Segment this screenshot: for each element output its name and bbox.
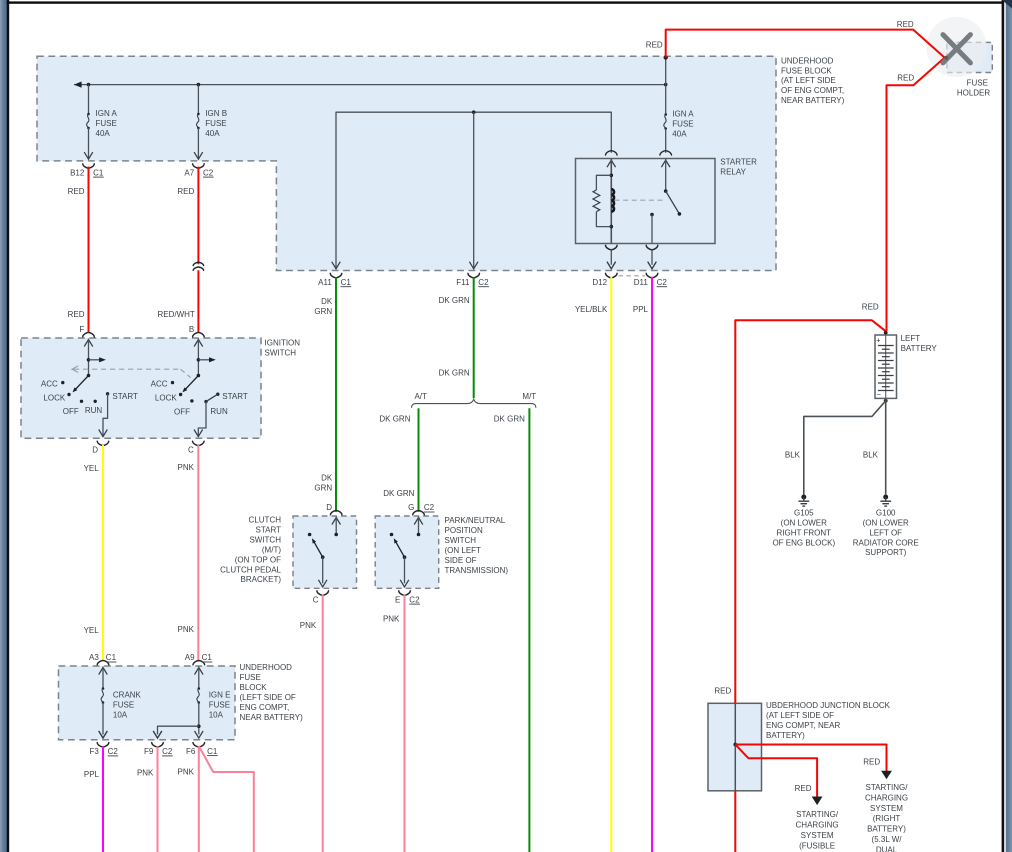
fuse holder connection dot (944, 56, 948, 60)
svg-text:RED: RED (714, 687, 731, 696)
ignition switch box (dashed) (21, 338, 261, 438)
underhood fuse block (top, dashed box) (37, 56, 776, 270)
svg-text:ACC: ACC (151, 380, 168, 389)
svg-text:RED/WHT: RED/WHT (157, 310, 194, 319)
A/T-M/T split brace (412, 399, 536, 407)
svg-text:FUSE: FUSE (209, 700, 230, 709)
svg-text:CRANK: CRANK (113, 691, 142, 700)
exit D12 (607, 262, 616, 269)
svg-text:SWITCH: SWITCH (249, 535, 281, 544)
svg-text:DK GRN: DK GRN (383, 489, 414, 498)
wire DK GRN A/T branch to G (418, 408, 420, 512)
wire PNK F9 down (157, 746, 159, 852)
svg-text:C: C (188, 445, 194, 454)
svg-text:D12: D12 (592, 278, 607, 287)
svg-text:ENG COMPT, NEAR: ENG COMPT, NEAR (766, 721, 840, 730)
wire DK GRN F11 to split (473, 277, 475, 398)
svg-text:RUN: RUN (210, 407, 228, 416)
wire RED junction block to bottom (734, 791, 736, 852)
svg-text:IGN A: IGN A (96, 109, 118, 118)
svg-text:ENG COMPT,: ENG COMPT, (240, 703, 290, 712)
node coil bottom (610, 225, 614, 229)
ground G105 (801, 495, 806, 500)
svg-text:RED: RED (863, 758, 880, 767)
svg-text:FUSE: FUSE (96, 119, 117, 128)
mechanical gang link (dashed) (72, 366, 78, 373)
svg-text:RED: RED (646, 41, 663, 50)
exit F3 C2 (99, 731, 108, 738)
svg-text:−: − (877, 392, 881, 399)
svg-text:D11: D11 (634, 278, 649, 287)
wire PNK E down (404, 595, 406, 852)
svg-text:LEFT OF: LEFT OF (869, 528, 902, 537)
svg-text:BLK: BLK (863, 451, 879, 460)
svg-text:PNK: PNK (300, 621, 317, 630)
svg-text:SWITCH: SWITCH (445, 536, 477, 545)
svg-text:FUSE: FUSE (113, 700, 134, 709)
left START wire to D (103, 394, 108, 437)
svg-text:PNK: PNK (178, 625, 195, 634)
node bus-IGN B (197, 83, 201, 87)
svg-text:(ON LOWER: (ON LOWER (781, 518, 827, 527)
svg-text:G105: G105 (794, 508, 814, 517)
P/N switch output wire (404, 557, 406, 583)
fuse CRANK 10A (102, 667, 104, 689)
svg-text:START: START (256, 525, 282, 534)
svg-text:(AT LEFT SIDE: (AT LEFT SIDE (781, 76, 836, 85)
svg-text:C2: C2 (108, 747, 119, 756)
svg-text:BATTERY): BATTERY) (867, 825, 906, 834)
wire YEL/BLK D12 down (610, 277, 612, 852)
svg-text:TRANSMISSION): TRANSMISSION) (445, 566, 509, 575)
svg-text:NEAR BATTERY): NEAR BATTERY) (781, 96, 845, 105)
svg-text:PARK/NEUTRAL: PARK/NEUTRAL (445, 516, 506, 525)
wire PPL F3 down (102, 746, 104, 852)
svg-text:DK GRN: DK GRN (379, 415, 410, 424)
svg-text:DK: DK (321, 474, 333, 483)
wire BLK battery negative split (884, 399, 888, 403)
svg-text:DK GRN: DK GRN (494, 415, 525, 424)
exit E C2 (park/neutral) (399, 591, 411, 595)
svg-text:RED: RED (177, 187, 194, 196)
clutch start switch box (dashed) (293, 516, 357, 588)
svg-text:YEL/BLK: YEL/BLK (575, 305, 608, 314)
starter relay box (576, 159, 716, 244)
relay switch fixed contact (650, 213, 654, 217)
svg-text:PNK: PNK (137, 768, 154, 777)
svg-text:(M/T): (M/T) (262, 545, 281, 554)
node bus-IGN A (87, 83, 91, 87)
svg-text:OF ENG COMPT,: OF ENG COMPT, (781, 86, 844, 95)
bus left arrow (74, 82, 82, 88)
svg-text:C1: C1 (207, 747, 218, 756)
battery LEFT BATTERY (875, 335, 897, 398)
svg-text:START: START (112, 392, 138, 401)
svg-text:RED: RED (897, 73, 914, 82)
svg-text:40A: 40A (672, 129, 687, 138)
svg-text:RED: RED (68, 310, 85, 319)
underhood junction block box (708, 703, 762, 791)
svg-text:FUSE BLOCK: FUSE BLOCK (781, 66, 832, 75)
svg-text:F9: F9 (144, 747, 154, 756)
svg-text:(AT LEFT SIDE OF: (AT LEFT SIDE OF (766, 711, 834, 720)
underhood fuse block box (lower left, dashed) (59, 666, 236, 740)
wire PNK F6 branch (jog right) (199, 746, 254, 852)
fuse IGN B 40A (197, 85, 199, 114)
svg-text:PPL: PPL (633, 305, 649, 314)
entry A3 C1 (97, 660, 109, 664)
svg-text:10A: 10A (209, 710, 224, 719)
svg-text:DK GRN: DK GRN (439, 296, 470, 305)
svg-text:C2: C2 (162, 747, 173, 756)
exit D (97, 441, 109, 445)
exit F11 C2 (469, 262, 478, 269)
svg-text:LOCK: LOCK (43, 393, 65, 402)
ignition pole wire at x=198.4 (197, 339, 199, 376)
ignition rotor arm (74, 376, 88, 391)
svg-text:YEL: YEL (84, 626, 100, 635)
clutch open contact (308, 533, 312, 537)
wire through junction block (gray) (734, 703, 736, 791)
relay coil feed connector (606, 151, 618, 155)
svg-text:RED: RED (897, 20, 914, 29)
relay resistor R (parallel) (596, 175, 611, 190)
svg-text:HOLDER: HOLDER (957, 89, 991, 98)
svg-text:+: + (876, 337, 880, 344)
fuse IGN A 40A (right) (665, 85, 667, 115)
relay output D11 connector at box bottom (646, 245, 658, 249)
entry G C2 (park/neutral switch) (413, 510, 425, 514)
svg-text:RED: RED (795, 784, 812, 793)
svg-text:E: E (395, 595, 400, 604)
clutch switch arm (313, 541, 322, 558)
position contacts (61, 381, 64, 384)
svg-text:(FUSIBLE: (FUSIBLE (799, 841, 835, 850)
svg-text:C2: C2 (657, 278, 668, 287)
relay coil wire (610, 159, 612, 244)
svg-text:BATTERY: BATTERY (901, 344, 938, 353)
svg-text:SWITCH: SWITCH (265, 348, 297, 357)
svg-text:FUSE: FUSE (240, 673, 261, 682)
svg-text:10A: 10A (113, 710, 128, 719)
svg-text:PNK: PNK (178, 768, 195, 777)
relay switch contacts (665, 159, 667, 192)
wire branch to F9 (158, 726, 199, 734)
svg-text:STARTER: STARTER (720, 158, 757, 167)
svg-text:UNDERHOOD: UNDERHOOD (781, 56, 834, 65)
wire RED fuse block to fuse holder (666, 30, 945, 58)
wire DK GRN M/T branch down (528, 408, 530, 852)
svg-text:C: C (313, 595, 319, 604)
wire PNK clutch C down (322, 595, 324, 852)
svg-text:C1: C1 (106, 653, 117, 662)
svg-text:RELAY: RELAY (720, 168, 746, 177)
svg-text:C2: C2 (203, 168, 214, 177)
fuse IGN A 40A (left) (88, 85, 90, 114)
junction node (733, 743, 737, 747)
connector C2 dashed link (619, 275, 646, 277)
ignition pole wire at x=88.5 (88, 339, 90, 376)
svg-text:SYSTEM: SYSTEM (801, 831, 834, 840)
svg-text:F11: F11 (456, 278, 470, 287)
P/N open contact (390, 533, 394, 537)
svg-text:D: D (92, 445, 98, 454)
ignition rotor arm (184, 376, 198, 391)
svg-text:40A: 40A (96, 129, 111, 138)
svg-text:F3: F3 (89, 747, 99, 756)
exit A7 C2 (194, 152, 203, 159)
svg-text:F: F (79, 325, 84, 334)
svg-text:C1: C1 (202, 653, 213, 662)
fuse holder box (dashed) (947, 42, 992, 72)
svg-text:A11: A11 (318, 278, 332, 287)
exit C (clutch) (317, 591, 329, 595)
svg-text:STARTING/: STARTING/ (866, 783, 909, 792)
svg-text:GRN: GRN (314, 307, 332, 316)
park/neutral position switch box (dashed) (375, 516, 439, 588)
svg-text:C2: C2 (478, 278, 489, 287)
entry B (193, 332, 205, 336)
cursor highlight circle (926, 17, 986, 77)
exit F6 C1 (193, 743, 205, 747)
ground G100 (883, 495, 888, 500)
svg-text:40A: 40A (205, 129, 220, 138)
wire PNK C to A9 (197, 445, 199, 662)
svg-text:ACC: ACC (41, 380, 58, 389)
svg-text:PNK: PNK (178, 463, 195, 472)
svg-text:BLOCK: BLOCK (240, 683, 268, 692)
svg-text:BLK: BLK (785, 451, 801, 460)
svg-text:DK GRN: DK GRN (439, 369, 470, 378)
wire RED branch to fusible link (735, 745, 817, 798)
svg-text:IGNITION: IGNITION (265, 338, 301, 347)
node coil top (610, 174, 614, 178)
entry F (83, 332, 95, 336)
relay mechanical link (dashed) (615, 199, 665, 201)
relay switch feed connector (660, 151, 672, 155)
relay output D12 connector at box bottom (606, 245, 618, 249)
svg-text:YEL: YEL (84, 464, 100, 473)
svg-text:A3: A3 (89, 653, 99, 662)
wire RED/WHT A7 to B (197, 167, 199, 265)
exit A11 C1 (332, 262, 341, 269)
wire RED B12 to F (88, 167, 90, 333)
P/N switch arm (395, 541, 404, 558)
svg-text:C1: C1 (93, 168, 104, 177)
svg-text:PNK: PNK (383, 615, 400, 624)
svg-text:A7: A7 (184, 168, 194, 177)
svg-text:F6: F6 (186, 747, 196, 756)
svg-text:RED: RED (862, 302, 879, 311)
svg-text:(LEFT SIDE OF: (LEFT SIDE OF (240, 693, 296, 702)
svg-text:START: START (222, 392, 248, 401)
exit D11 C2 (648, 262, 657, 269)
battery terminal dot (884, 331, 888, 335)
svg-text:SUPPORT): SUPPORT) (865, 548, 907, 557)
entry A9 C1 (193, 660, 205, 664)
svg-text:B12: B12 (70, 168, 85, 177)
svg-text:M/T: M/T (522, 392, 536, 401)
svg-text:RADIATOR CORE: RADIATOR CORE (853, 538, 919, 547)
svg-text:LEFT: LEFT (901, 334, 921, 343)
svg-text:C1: C1 (341, 278, 352, 287)
svg-text:B: B (189, 325, 194, 334)
entry D (clutch switch) (330, 510, 342, 514)
svg-text:D: D (326, 503, 332, 512)
node RED drop on box edge (664, 55, 668, 59)
svg-text:FUSE: FUSE (967, 79, 988, 88)
svg-text:A9: A9 (185, 653, 195, 662)
svg-text:IGN B: IGN B (205, 109, 227, 118)
svg-text:RIGHT FRONT: RIGHT FRONT (777, 528, 832, 537)
svg-text:RUN: RUN (85, 406, 103, 415)
svg-text:G100: G100 (876, 508, 896, 517)
svg-text:POSITION: POSITION (445, 526, 483, 535)
svg-text:BRACKET): BRACKET) (241, 575, 282, 584)
wire RED branch to right battery system (735, 745, 886, 772)
svg-text:DUAL: DUAL (876, 845, 898, 852)
clutch switch output wire (322, 557, 324, 583)
svg-text:SYSTEM: SYSTEM (870, 804, 903, 813)
svg-text:G: G (408, 503, 414, 512)
svg-text:PPL: PPL (84, 770, 100, 779)
svg-text:(ON LOWER: (ON LOWER (863, 518, 909, 527)
fuse IGN E 10A (198, 667, 200, 689)
svg-text:(5.3L W/: (5.3L W/ (872, 835, 903, 844)
wire RED battery to junction block (horizontal) (735, 320, 885, 703)
svg-text:UBDERHOOD JUNCTION BLOCK: UBDERHOOD JUNCTION BLOCK (766, 701, 891, 710)
svg-text:FUSE: FUSE (205, 119, 226, 128)
svg-text:IGN A: IGN A (672, 110, 694, 119)
svg-text:OF ENG BLOCK): OF ENG BLOCK) (772, 538, 835, 547)
inline connector on A7 wire (193, 262, 203, 265)
cursor X icon (943, 35, 970, 63)
svg-text:CHARGING: CHARGING (865, 793, 908, 802)
wire DK GRN A11 to clutch switch D (335, 277, 337, 512)
svg-text:CLUTCH: CLUTCH (249, 516, 282, 525)
wire PNK F6 down (198, 746, 200, 852)
svg-text:UNDERHOOD: UNDERHOOD (240, 663, 293, 672)
wire PPL D11 down (651, 277, 653, 852)
node bus-right (664, 83, 668, 87)
svg-text:SIDE OF: SIDE OF (445, 556, 477, 565)
branch wire to A11/F11/relay coil (336, 112, 611, 269)
right START-RUN wire to C (206, 394, 218, 401)
svg-text:RED: RED (68, 187, 85, 196)
svg-text:CHARGING: CHARGING (796, 821, 839, 830)
svg-text:IGN E: IGN E (209, 691, 231, 700)
node branch-F11 (472, 110, 476, 114)
svg-text:BATTERY): BATTERY) (766, 731, 805, 740)
bus wire in top fuse block (74, 84, 666, 86)
svg-text:C2: C2 (424, 503, 435, 512)
exit F9 C2 (153, 731, 162, 738)
wire RED to fuse holder (vertical drop) (665, 57, 667, 84)
svg-text:DK: DK (321, 297, 333, 306)
wire RED fuse holder to battery (887, 58, 945, 332)
svg-text:(RIGHT: (RIGHT (873, 814, 901, 823)
position contacts (171, 381, 174, 384)
wire YEL D to A3 (102, 445, 104, 662)
svg-text:(ON TOP OF: (ON TOP OF (235, 555, 281, 564)
node F9 branch (197, 724, 201, 728)
svg-text:GRN: GRN (314, 483, 332, 492)
svg-text:OFF: OFF (174, 408, 190, 417)
relay coil windings (611, 189, 614, 211)
exit B12 C1 (84, 152, 93, 159)
svg-text:CLUTCH PEDAL: CLUTCH PEDAL (220, 565, 281, 574)
svg-text:OFF: OFF (63, 407, 79, 416)
svg-text:FUSE: FUSE (672, 119, 693, 128)
svg-text:A/T: A/T (414, 392, 427, 401)
svg-text:LOCK: LOCK (155, 393, 177, 402)
svg-text:STARTING/: STARTING/ (796, 810, 839, 819)
svg-text:C2: C2 (409, 595, 420, 604)
svg-text:NEAR BATTERY): NEAR BATTERY) (240, 713, 304, 722)
wire F11 drop (473, 112, 475, 269)
svg-text:(ON LEFT: (ON LEFT (445, 546, 482, 555)
exit C (193, 441, 205, 445)
